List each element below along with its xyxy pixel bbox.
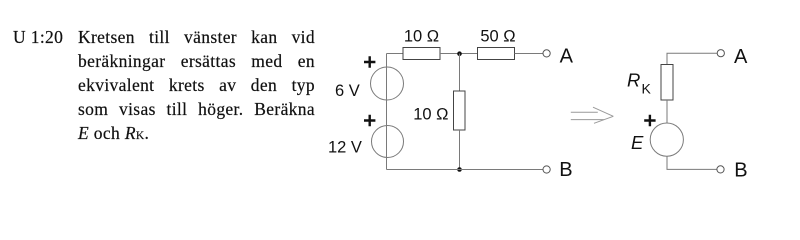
node junction dot (bottom)	[457, 167, 462, 172]
svg-text:R: R	[627, 70, 640, 91]
terminal B (right circuit)	[717, 166, 724, 173]
svg-text:B: B	[734, 159, 747, 181]
svg-text:B: B	[559, 159, 572, 181]
wire: left circuit bottom rail	[387, 169, 544, 171]
wire: right circuit top rail	[667, 53, 717, 64]
svg-text:A: A	[560, 45, 574, 67]
svg-text:50 Ω: 50 Ω	[480, 28, 515, 46]
resistor 50 ohm horizontal R2	[478, 48, 515, 60]
problem number label U 1:20	[13, 25, 63, 49]
svg-text:12 V: 12 V	[328, 139, 362, 157]
resistor 10 ohm horizontal R1	[403, 48, 440, 60]
problem statement text	[78, 25, 315, 148]
svg-text:6 V: 6 V	[335, 82, 360, 100]
wire: left circuit top rail, source top to resistor R1	[387, 53, 404, 55]
wire: RK to source E	[666, 100, 668, 123]
voltage source 12 V circle	[372, 126, 404, 158]
resistor RK vertical	[661, 65, 673, 101]
arrow (equivalence)	[571, 107, 614, 123]
wire: vertical branch from node to R3	[459, 54, 461, 92]
terminal A (right circuit)	[717, 50, 724, 57]
svg-text:K: K	[642, 81, 652, 97]
node junction dot (top)	[457, 51, 462, 56]
plus sign for source E	[644, 115, 655, 126]
wire: R3 to bottom rail	[459, 130, 461, 170]
wire: R1 to node, node to R2	[440, 53, 478, 55]
resistor 10 ohm vertical R3	[454, 91, 466, 130]
wire: right circuit bottom rail	[667, 156, 717, 169]
wire: left circuit left vertical rail through sources	[386, 54, 388, 170]
voltage source 6 V circle	[371, 67, 404, 100]
terminal B (left circuit)	[543, 166, 550, 173]
wire: R2 to terminal A	[515, 53, 544, 55]
plus sign for 12 V source	[364, 115, 375, 126]
plus sign for 6 V source	[364, 56, 375, 67]
svg-text:A: A	[734, 46, 748, 68]
svg-text:E: E	[631, 132, 644, 153]
svg-text:10 Ω: 10 Ω	[413, 106, 448, 124]
voltage source E circle	[650, 123, 683, 156]
terminal A (left circuit)	[543, 50, 550, 57]
svg-text:10 Ω: 10 Ω	[404, 28, 439, 46]
